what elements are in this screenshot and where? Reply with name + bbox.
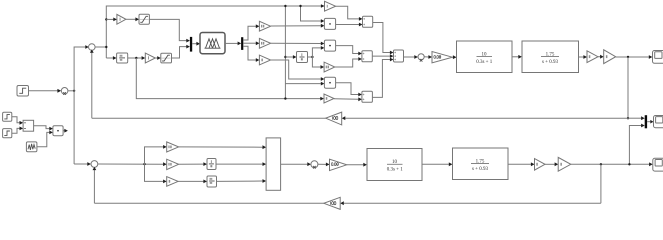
unit delay 1/z <box>297 52 308 63</box>
step source Step3 <box>3 129 12 138</box>
mux Mux2 <box>645 115 647 128</box>
integrator 1/s (bottom) <box>207 159 216 170</box>
final sum rectangle SRF <box>394 50 404 62</box>
gain T2 <box>259 38 270 48</box>
gain GL2 <box>167 159 179 169</box>
gain GC <box>535 159 546 171</box>
wire P2 to SR2 top input <box>336 46 362 56</box>
product P1 <box>324 18 335 29</box>
wire SRF to sum circle B <box>404 55 418 59</box>
gain G5 <box>324 94 334 103</box>
multiplier circle A <box>61 88 68 95</box>
wire GA to GB <box>598 55 604 59</box>
sum circle C <box>311 161 318 169</box>
wire P1 to SR1 bottom input <box>336 23 363 27</box>
wire to TF3 <box>347 163 367 167</box>
wire derivative to tall mux input3 <box>217 179 267 183</box>
wire T1 to product P1 lower input <box>271 24 325 28</box>
switch block SW <box>23 120 33 131</box>
transfer function TF3 10/(0.3s+1) <box>367 149 422 181</box>
feedback gain 100 (top) <box>326 112 342 125</box>
wire PL short output arrow <box>63 129 68 133</box>
transfer function TF1 10/(0.3s+1) <box>457 41 513 73</box>
wire 1/z output branches <box>308 46 325 69</box>
wire fuzzy to Demux <box>225 42 241 46</box>
svg-text:0.3s + 1: 0.3s + 1 <box>476 60 493 65</box>
wire demux out2 to T2 <box>243 41 259 45</box>
wire S2 feedback bottom input <box>93 167 97 203</box>
gain G70 <box>324 62 335 72</box>
svg-text:s + 0.93: s + 0.93 <box>542 60 559 65</box>
sum rectangle SR2 <box>362 51 372 62</box>
scope Scope1 <box>653 51 663 64</box>
gain GL3 <box>167 177 178 187</box>
wire S2 output with junction to three gains <box>98 145 167 183</box>
gain 0.08 (bottom) <box>330 159 347 170</box>
gain G1 <box>117 14 126 24</box>
svg-text:s + 0.93: s + 0.93 <box>472 167 489 172</box>
wire derivative signal down to y=98.6 line <box>136 58 324 101</box>
wire demux out3 to T3 <box>243 46 259 62</box>
gain GB <box>604 50 616 64</box>
wire TF1 to TF2 <box>512 55 522 59</box>
wire error vertical x=285.4 with taps <box>284 5 324 100</box>
noise source <box>26 142 37 152</box>
gain T3 <box>259 55 270 65</box>
wire P3 to SR3 top input <box>336 83 362 97</box>
wire bottom feedback down from junction to y=203.2 <box>340 164 601 205</box>
gain GA <box>587 51 598 63</box>
wire feedback left then up into S2 <box>94 202 323 204</box>
step source Step2 <box>3 112 12 121</box>
wire TF3 to TF4 <box>422 162 452 166</box>
wire Sat1 to Mux1 top input <box>149 19 190 42</box>
derivative block du/dt (top) <box>117 53 128 63</box>
wire G5 to SR3 bottom input <box>334 97 362 101</box>
gain GL1 <box>167 142 179 152</box>
wire B to gain 0.08 (top) <box>424 55 432 59</box>
wire S1 output trunk x=105.7 with branches <box>95 4 325 60</box>
gain GD <box>558 157 571 171</box>
wire mux2 top input from feedback junction <box>628 116 645 120</box>
step source Step1 <box>17 86 29 97</box>
wire G1 to Sat1 <box>126 17 139 21</box>
product P3 <box>324 77 335 88</box>
wire GL1 to tall mux input1 <box>179 145 267 149</box>
wire integrator to tall mux input2 <box>216 162 266 166</box>
wire Step1 to multiplier A <box>29 89 62 93</box>
wire Sat2 to Mux1 bottom input <box>172 45 190 58</box>
wire to TF1 <box>452 55 456 59</box>
mux Mux1 <box>190 37 192 52</box>
wire SR3 to final sum input3 <box>372 58 393 98</box>
product PL <box>53 126 63 136</box>
transfer function TF4 1.75/(s+0.93) <box>453 148 509 180</box>
tall mux rectangle <box>266 138 281 190</box>
wire C to gain 0.08 (bottom) <box>318 163 330 167</box>
gain 0.08 (top) <box>432 52 452 63</box>
wire SW to product PL <box>34 126 53 131</box>
wire du/dt out with junction <box>128 56 146 60</box>
wire Gtop to sum SR1 top input <box>336 6 363 21</box>
wire SR1 to final sum input1 <box>373 23 394 55</box>
wire Mux1 to fuzzy <box>192 42 200 46</box>
wire GL2 to integrator <box>179 162 207 166</box>
wire GD to Scope3 with junctions <box>571 162 653 166</box>
gain G2 <box>145 53 155 63</box>
wire Step3 to switch <box>12 127 23 134</box>
demux Demux1 <box>241 37 243 50</box>
wire GB to Scope1 with junction <box>616 55 653 59</box>
wire error vertical x=300.5 to product P1 upper input <box>299 5 324 23</box>
sum rectangle SR3 <box>362 91 373 102</box>
transfer function TF2 1.75/(s+0.93) <box>522 41 579 73</box>
wire TF2 to gain GA <box>579 55 588 59</box>
feedback gain 100 (bottom) <box>324 197 340 209</box>
sum circle B <box>418 54 424 62</box>
wire top feedback down from junction to y=118.2 <box>342 57 630 120</box>
wire A output to junction <box>68 90 75 92</box>
wire vertical trunk x=74 to both sums <box>74 45 91 166</box>
wire T3 to product P3 upper input <box>271 60 325 81</box>
wire Mux2 to Scope2 <box>647 120 653 124</box>
wire G70 to SR2 bottom input <box>335 57 362 67</box>
scope Scope2 <box>654 116 663 128</box>
fuzzy logic controller block <box>200 33 225 54</box>
wire feedback left then up into S1 <box>92 117 326 119</box>
gain Gtop (on error line) <box>325 1 336 11</box>
wire mux2 bottom input from bottom-loop output <box>629 124 644 165</box>
product P2 <box>324 40 335 51</box>
derivative du/dt (bottom) <box>207 176 217 187</box>
wire TF4 to gain GC <box>508 162 535 166</box>
sum S1 (top loop) <box>89 44 96 51</box>
wire G2 to Sat2 <box>155 56 161 60</box>
saturation Sat1 <box>139 14 149 24</box>
wire GL3 to derivative <box>178 180 207 184</box>
wire S1 feedback bottom input <box>90 50 94 119</box>
sum rectangle SR1 <box>363 16 373 27</box>
wire Step2 to switch <box>12 117 23 125</box>
wire noise to product PL <box>37 131 53 147</box>
gain T1 <box>259 21 270 31</box>
wire SR2 to final sum input2 <box>372 54 393 58</box>
wire T2 to product P2 upper input <box>271 42 325 46</box>
svg-text:0.3s + 1: 0.3s + 1 <box>387 168 404 173</box>
saturation Sat2 <box>161 53 172 63</box>
scope Scope3 <box>653 158 663 171</box>
sum S2 (bottom loop) <box>91 161 98 168</box>
wire tall mux to sum circle C <box>281 162 311 166</box>
wire GC to GD <box>545 162 558 166</box>
wire demux out1 to T1 <box>243 24 259 40</box>
